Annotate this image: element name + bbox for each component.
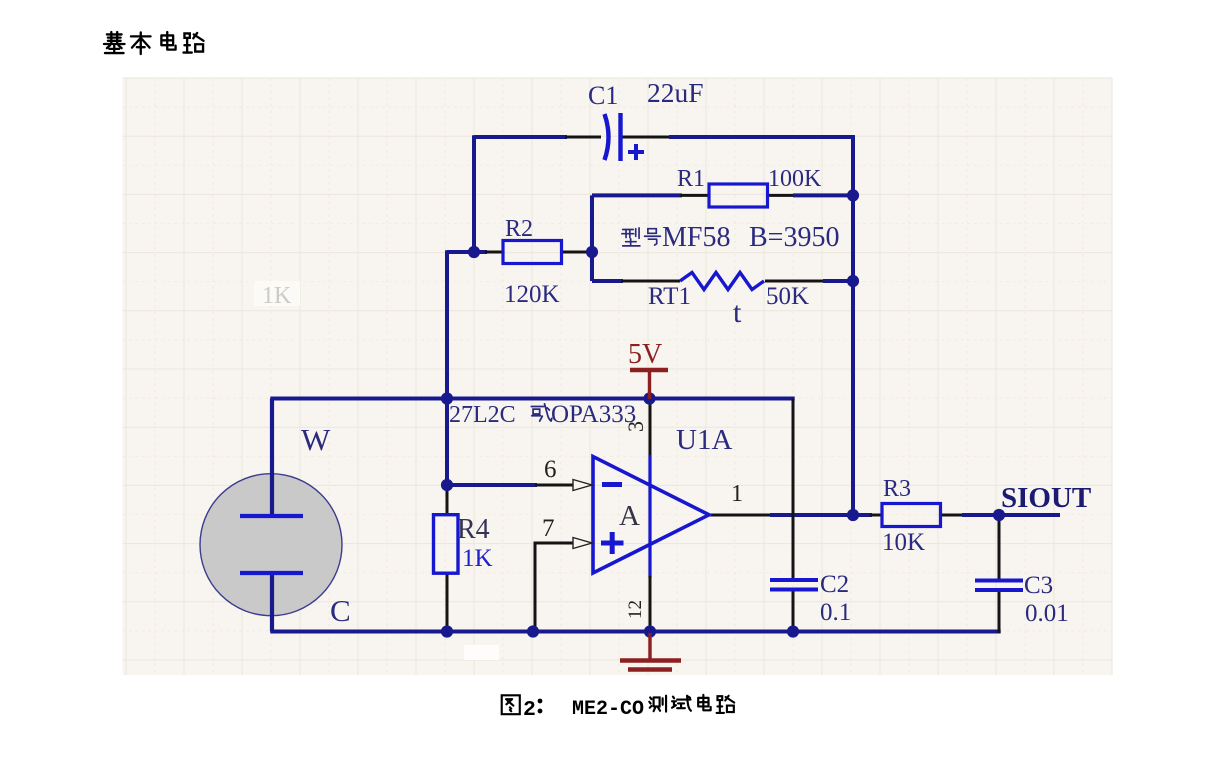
svg-text:C2: C2 [820, 571, 849, 598]
svg-text:C: C [330, 593, 351, 628]
svg-text:SIOUT: SIOUT [1001, 482, 1091, 514]
svg-text:50K: 50K [766, 283, 809, 310]
svg-text:R2: R2 [505, 216, 533, 242]
svg-text:A: A [619, 500, 640, 532]
svg-text:12: 12 [625, 600, 646, 619]
svg-text:2: 2 [523, 698, 536, 722]
svg-text:R4: R4 [457, 514, 490, 545]
svg-text:10K: 10K [882, 529, 925, 556]
svg-text:100K: 100K [768, 166, 822, 192]
svg-text:22uF: 22uF [647, 77, 704, 108]
svg-text:t: t [733, 296, 742, 329]
svg-text:5V: 5V [628, 339, 662, 370]
svg-text:1K: 1K [462, 545, 493, 572]
svg-text:MF58: MF58 [662, 222, 730, 253]
svg-text:R3: R3 [883, 476, 911, 502]
svg-text:0.01: 0.01 [1025, 600, 1069, 627]
svg-text:0.1: 0.1 [820, 599, 851, 626]
svg-text:120K: 120K [504, 281, 560, 308]
svg-text:RT1: RT1 [648, 283, 691, 310]
svg-text:OPA333: OPA333 [551, 401, 636, 428]
svg-text:6: 6 [544, 456, 557, 483]
svg-text:27L2C: 27L2C [449, 402, 516, 428]
svg-text:U1A: U1A [676, 424, 732, 456]
svg-text:1: 1 [731, 481, 743, 507]
svg-text:C1: C1 [588, 81, 618, 110]
svg-text:B=3950: B=3950 [749, 222, 839, 253]
svg-text:ME2-CO: ME2-CO [572, 698, 644, 721]
svg-text:W: W [301, 422, 331, 457]
svg-text:7: 7 [542, 515, 555, 542]
svg-text:1K: 1K [262, 283, 292, 309]
svg-text:R1: R1 [677, 166, 705, 192]
svg-text:C3: C3 [1024, 572, 1053, 599]
